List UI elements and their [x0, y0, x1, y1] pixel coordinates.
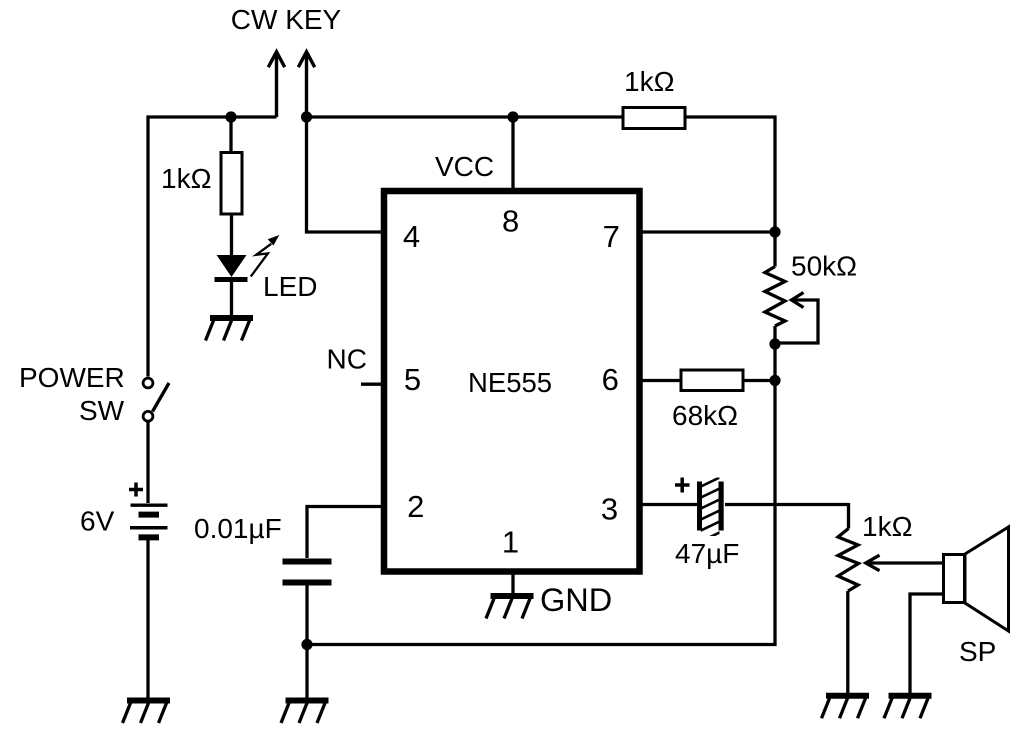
LED light arrow — [251, 244, 271, 277]
svg-text:SW: SW — [79, 395, 125, 426]
svg-text:4: 4 — [403, 219, 420, 254]
node junction 1k/LED branch — [225, 111, 236, 122]
svg-text:1kΩ: 1kΩ — [624, 66, 675, 97]
svg-text:CW KEY: CW KEY — [231, 4, 342, 35]
wire switch to battery — [146, 422, 149, 503]
svg-text:5: 5 — [404, 362, 421, 397]
ground pot — [822, 696, 870, 719]
wire pin3 to 1k pot — [725, 505, 849, 529]
wire pin 2 — [307, 507, 384, 559]
svg-text:68kΩ: 68kΩ — [672, 400, 738, 431]
arrow terminal right (CW key) — [298, 52, 314, 117]
resistor R 1k top — [623, 108, 685, 129]
wire pin4 branch — [307, 117, 385, 232]
wire top-right rail — [307, 115, 624, 118]
potentiometer VR 50k — [773, 232, 776, 267]
ground battery — [123, 701, 171, 724]
svg-text:8: 8 — [502, 204, 519, 239]
wire resistor to right corner — [685, 117, 775, 232]
wire VCC drop to pin 8 — [511, 117, 514, 191]
wire pot to ground — [846, 591, 849, 693]
capacitor C 47uF polarized — [697, 482, 702, 531]
wire LED to ground — [230, 280, 233, 317]
resistor R 1k LED branch — [221, 153, 242, 215]
wire 68k node down to bottom rail — [307, 381, 775, 645]
svg-text:LED: LED — [263, 271, 317, 302]
battery BT1 6V — [131, 504, 168, 507]
LED D1 — [217, 255, 247, 277]
svg-text:1kΩ: 1kΩ — [862, 511, 913, 542]
svg-text:POWER: POWER — [19, 362, 125, 393]
node bottom rail — [301, 639, 312, 650]
svg-text:6V: 6V — [80, 506, 115, 537]
resistor R 68k — [681, 370, 743, 391]
speaker SP — [944, 555, 965, 603]
ground speaker — [884, 696, 932, 719]
wire cap to ground — [305, 586, 308, 698]
wire pin 3 — [640, 503, 699, 506]
battery plus sign — [129, 488, 143, 492]
node pin7/50k — [769, 226, 780, 237]
wire node to resistor — [229, 117, 232, 153]
svg-text:3: 3 — [601, 492, 618, 527]
wire 50k to 68k node — [773, 344, 776, 380]
svg-text:GND: GND — [540, 582, 612, 618]
node 50k bottom — [769, 338, 780, 349]
node 68k — [769, 375, 780, 386]
arrow terminal left (CW key) — [268, 52, 284, 117]
svg-text:47µF: 47µF — [675, 538, 739, 569]
svg-text:0.01µF: 0.01µF — [194, 513, 282, 544]
svg-text:NE555: NE555 — [468, 367, 552, 398]
pin 5 NC stub — [361, 383, 384, 386]
47uF plus sign — [675, 483, 690, 487]
ground GND pin1 — [486, 596, 534, 619]
switch S1 — [143, 378, 153, 388]
wire top-left rail — [148, 117, 277, 377]
svg-text:6: 6 — [602, 362, 619, 397]
ground 0.01uF — [281, 701, 329, 724]
svg-text:VCC: VCC — [435, 151, 494, 182]
svg-text:SP: SP — [959, 636, 996, 667]
node VCC junction — [301, 111, 312, 122]
svg-text:2: 2 — [407, 489, 424, 524]
svg-text:50kΩ: 50kΩ — [791, 251, 857, 282]
capacitor C 0.01uF — [283, 559, 332, 565]
wire pin 6 — [640, 379, 682, 382]
svg-text:1kΩ: 1kΩ — [161, 163, 212, 194]
svg-text:1: 1 — [502, 525, 519, 560]
wire resistor to LED — [230, 214, 233, 256]
ground LED — [206, 318, 254, 341]
wire pin 7 — [640, 230, 776, 233]
wire battery to ground — [146, 538, 149, 698]
wire pin 1 — [511, 572, 514, 595]
1k wiper arrow from speaker — [866, 555, 880, 571]
wire speaker to ground — [910, 594, 944, 693]
svg-text:NC: NC — [327, 344, 367, 375]
potentiometer VR 1k volume — [838, 529, 859, 592]
IC U1 NE555 — [384, 191, 640, 572]
svg-text:7: 7 — [603, 219, 620, 254]
50k wiper arrow — [792, 293, 804, 308]
